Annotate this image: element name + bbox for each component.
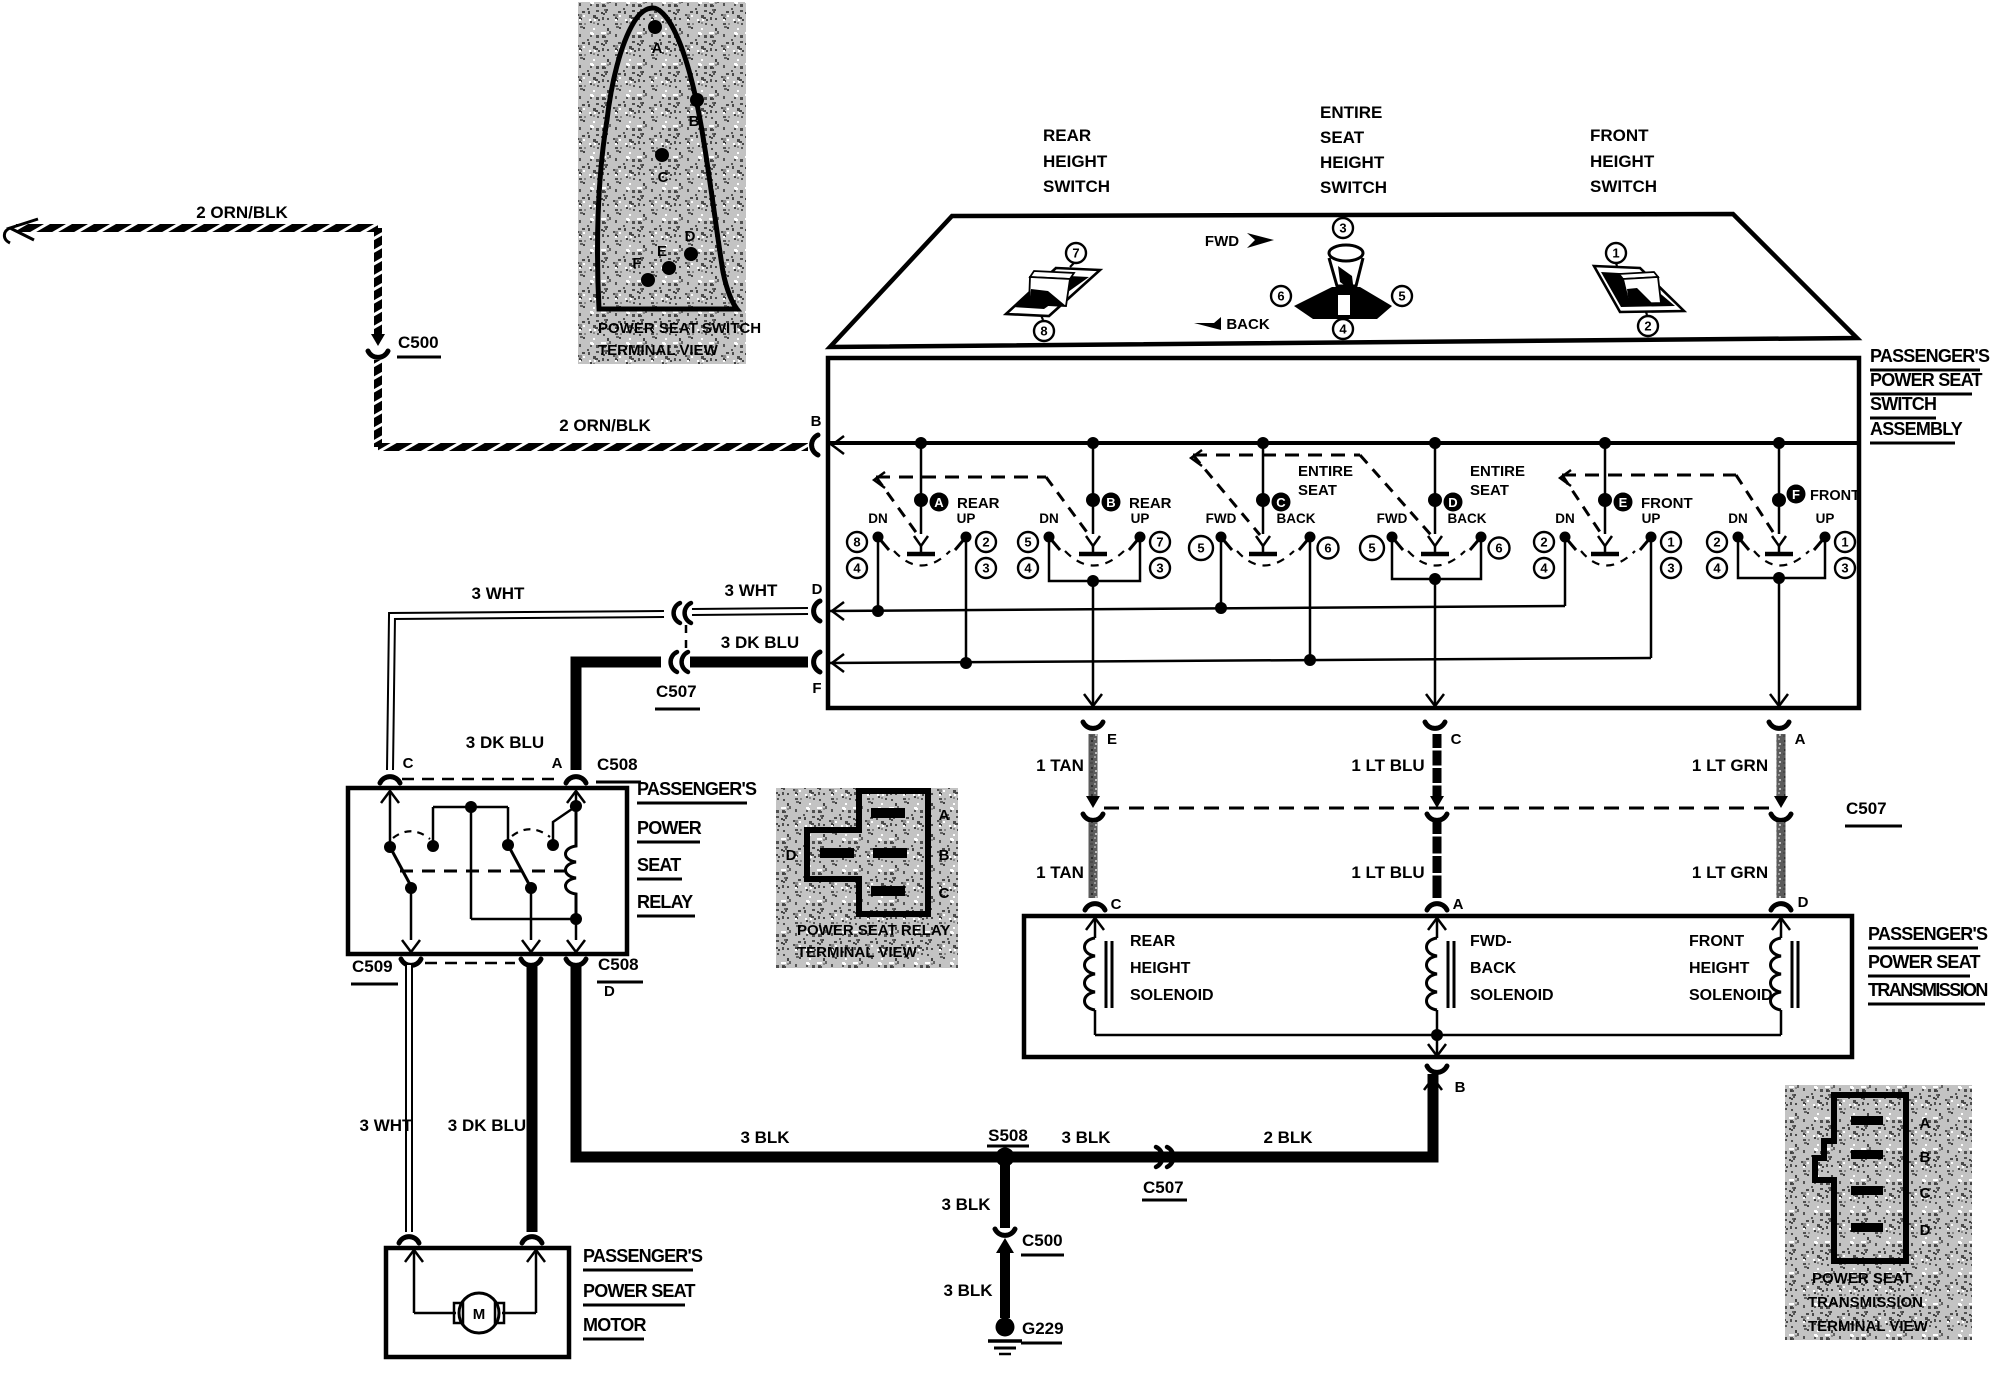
svg-text:SOLENOID: SOLENOID bbox=[1130, 987, 1214, 1004]
svg-text:MOTOR: MOTOR bbox=[583, 1315, 646, 1335]
svg-text:SOLENOID: SOLENOID bbox=[1689, 987, 1773, 1004]
svg-text:DN: DN bbox=[1728, 511, 1748, 526]
svg-text:TRANSMISSION: TRANSMISSION bbox=[1808, 1294, 1923, 1311]
svg-text:A: A bbox=[1920, 1115, 1931, 1132]
svg-text:C: C bbox=[658, 169, 669, 186]
wire switch B to terminal E (U-join) bbox=[1049, 542, 1140, 581]
svg-text:POWER SEAT SWITCH: POWER SEAT SWITCH bbox=[598, 320, 761, 337]
wire 3 BLK to ground bbox=[1000, 1250, 1010, 1318]
joystick BACK arrow bbox=[1194, 317, 1221, 330]
svg-text:REAR: REAR bbox=[957, 495, 1000, 512]
svg-text:3 WHT: 3 WHT bbox=[360, 1116, 414, 1135]
svg-text:C500: C500 bbox=[1022, 1231, 1063, 1250]
power seat transmission terminal view panel bbox=[1785, 1085, 1972, 1340]
svg-text:M: M bbox=[473, 1306, 486, 1323]
terminal F bracket bbox=[814, 652, 820, 672]
svg-text:C: C bbox=[1451, 731, 1462, 748]
switch D feed tap bbox=[1429, 437, 1441, 449]
svg-text:1 LT BLU: 1 LT BLU bbox=[1351, 756, 1424, 775]
passenger's power seat transmission box bbox=[1024, 916, 1852, 1057]
terminal D bracket (transmission) bbox=[1771, 904, 1791, 910]
switch C wiper travel arc bbox=[1237, 551, 1294, 566]
wire 1 LT BLU lower bbox=[1433, 822, 1442, 898]
joystick FWD arrow bbox=[1247, 233, 1274, 248]
connector C500 (top) bbox=[371, 334, 385, 346]
connector C508 brackets (bottom) bbox=[521, 959, 541, 965]
svg-text:3 DK BLU: 3 DK BLU bbox=[721, 633, 799, 652]
svg-text:SEAT: SEAT bbox=[1470, 482, 1509, 499]
switch F terminal numbers bbox=[1707, 532, 1727, 552]
wire 2 ORN/BLK below C500 bbox=[374, 360, 382, 447]
svg-text:DN: DN bbox=[868, 511, 888, 526]
switch F pivot bbox=[1772, 493, 1786, 507]
switch A right contact UP bbox=[961, 532, 972, 543]
svg-text:2 ORN/BLK: 2 ORN/BLK bbox=[559, 416, 651, 435]
svg-text:BACK: BACK bbox=[1277, 511, 1316, 526]
svg-text:SWITCH: SWITCH bbox=[1870, 394, 1936, 414]
svg-text:4: 4 bbox=[1713, 561, 1721, 576]
relay coil bbox=[566, 806, 577, 917]
relay right switch pole bbox=[507, 807, 510, 843]
switch A feed tap bbox=[915, 437, 927, 449]
switch E left contact DN bbox=[1560, 532, 1571, 543]
svg-text:D: D bbox=[786, 847, 797, 864]
svg-text:E: E bbox=[1619, 495, 1628, 510]
svg-text:A: A bbox=[552, 755, 563, 772]
motor bbox=[454, 1303, 463, 1323]
terminal F (switch view) bbox=[641, 273, 655, 287]
svg-text:3 BLK: 3 BLK bbox=[1061, 1128, 1111, 1147]
wire 3 WHT from C507 to relay bbox=[390, 614, 664, 770]
svg-text:C508: C508 bbox=[598, 955, 639, 974]
switch E wiper travel arc bbox=[1581, 551, 1635, 566]
svg-text:7: 7 bbox=[1156, 535, 1163, 550]
switch A pivot bbox=[914, 493, 928, 507]
svg-text:DN: DN bbox=[1555, 511, 1575, 526]
motor connector brackets bbox=[399, 1237, 419, 1243]
svg-text:F: F bbox=[632, 255, 641, 272]
switch E terminal numbers bbox=[1534, 532, 1554, 552]
svg-text:UP: UP bbox=[1642, 511, 1661, 526]
svg-text:1: 1 bbox=[1612, 246, 1619, 261]
wire 2 ORN/BLK from fuse (hatched) bbox=[16, 224, 378, 232]
svg-text:SEAT: SEAT bbox=[1298, 482, 1337, 499]
relay pole from C bbox=[381, 791, 399, 803]
switch F wiper travel arc bbox=[1754, 551, 1809, 566]
svg-text:3 DK BLU: 3 DK BLU bbox=[448, 1116, 526, 1135]
svg-text:D: D bbox=[604, 983, 615, 1000]
connector C507 inline (2 BLK) bbox=[1156, 1147, 1162, 1167]
switch E pivot bbox=[1598, 493, 1612, 507]
svg-text:HEIGHT: HEIGHT bbox=[1130, 960, 1191, 977]
wire 1 LT GRN upper bbox=[1777, 734, 1786, 798]
switch D pivot bbox=[1428, 493, 1442, 507]
joystick base bbox=[1294, 287, 1392, 319]
svg-text:A: A bbox=[1453, 896, 1464, 913]
svg-text:2: 2 bbox=[982, 535, 989, 550]
svg-text:PASSENGER'S: PASSENGER'S bbox=[583, 1246, 703, 1266]
circled 6 bbox=[1271, 286, 1291, 306]
svg-text:FRONT: FRONT bbox=[1689, 933, 1744, 950]
svg-text:SWITCH: SWITCH bbox=[1320, 178, 1387, 197]
svg-text:3 WHT: 3 WHT bbox=[725, 581, 779, 600]
svg-text:3: 3 bbox=[1841, 561, 1848, 576]
connector C507 on LT BLU wire bbox=[1430, 796, 1444, 808]
svg-text:BACK: BACK bbox=[1448, 511, 1487, 526]
connector C507 inline (3 DK BLU) bbox=[671, 652, 677, 672]
svg-text:BACK: BACK bbox=[1470, 960, 1517, 977]
switch C right contact BACK bbox=[1305, 532, 1316, 543]
switch D left contact FWD bbox=[1387, 532, 1398, 543]
svg-text:TERMINAL VIEW: TERMINAL VIEW bbox=[1808, 1318, 1929, 1335]
relay view terminal B bbox=[873, 848, 907, 858]
svg-text:1: 1 bbox=[1667, 535, 1674, 550]
relay right switch fixed contact bbox=[547, 839, 559, 851]
connector C507 dashed line bbox=[1104, 807, 1770, 810]
svg-text:B: B bbox=[811, 413, 822, 430]
svg-text:5: 5 bbox=[1197, 541, 1204, 556]
wire 1 TAN lower bbox=[1089, 822, 1098, 898]
wire switch C BACK to bus F bbox=[1309, 542, 1312, 660]
svg-text:SWITCH: SWITCH bbox=[1043, 177, 1110, 196]
svg-text:FWD-: FWD- bbox=[1470, 933, 1512, 950]
svg-text:A: A bbox=[934, 495, 944, 510]
terminal C bracket (assembly) bbox=[1425, 722, 1445, 728]
switch A terminal numbers bbox=[847, 532, 867, 552]
switch B left contact DN bbox=[1044, 532, 1055, 543]
svg-text:BACK: BACK bbox=[1226, 316, 1269, 333]
svg-text:5: 5 bbox=[1024, 535, 1031, 550]
svg-text:1 LT BLU: 1 LT BLU bbox=[1351, 863, 1424, 882]
svg-text:3: 3 bbox=[1339, 221, 1346, 236]
switch housing top face bbox=[830, 214, 1857, 347]
connector C507 on TAN wire bbox=[1086, 796, 1100, 808]
connector C509 bracket bbox=[401, 959, 421, 965]
wire switch F to terminal A (U-join) bbox=[1738, 542, 1825, 578]
circled 7 bbox=[1070, 263, 1074, 267]
svg-text:1 LT GRN: 1 LT GRN bbox=[1692, 756, 1768, 775]
svg-text:3 BLK: 3 BLK bbox=[941, 1195, 991, 1214]
connector C508 dashed line (top) bbox=[402, 778, 562, 781]
switch A left contact DN bbox=[873, 532, 884, 543]
svg-text:2: 2 bbox=[1644, 319, 1651, 334]
bus wire to terminal D bbox=[828, 606, 1565, 611]
switch A identifier bbox=[930, 493, 949, 512]
wire 3 DK BLU from F to C507 bbox=[690, 657, 808, 668]
power seat switch terminal view panel bbox=[578, 2, 746, 364]
switch C pivot bbox=[1256, 493, 1270, 507]
rear height solenoid bbox=[1086, 918, 1104, 930]
switch B identifier bbox=[1102, 493, 1121, 512]
mechanical linkage dashed bbox=[1193, 454, 1360, 457]
svg-text:5: 5 bbox=[1368, 541, 1375, 556]
svg-text:4: 4 bbox=[1540, 561, 1548, 576]
switch D identifier bbox=[1444, 493, 1463, 512]
svg-text:4: 4 bbox=[1339, 322, 1347, 337]
switch B feed tap bbox=[1087, 437, 1099, 449]
switch C left contact FWD bbox=[1216, 532, 1227, 543]
svg-text:FRONT: FRONT bbox=[1590, 126, 1649, 145]
switch B wiper travel arc bbox=[1065, 551, 1124, 566]
circled 2 bbox=[1646, 312, 1647, 315]
bus wire to terminal F bbox=[828, 658, 1651, 663]
svg-text:4: 4 bbox=[853, 561, 861, 576]
front height solenoid bbox=[1772, 918, 1790, 930]
relay output arrows bbox=[402, 940, 420, 952]
svg-text:SEAT: SEAT bbox=[1320, 128, 1365, 147]
svg-text:B: B bbox=[939, 847, 950, 864]
wire 2 BLK to transmission B bbox=[1424, 1078, 1442, 1090]
terminal D (switch view) bbox=[684, 247, 698, 261]
wire 1 LT GRN lower bbox=[1777, 822, 1786, 898]
rear height rocker switch bbox=[1006, 268, 1100, 316]
svg-text:8: 8 bbox=[853, 535, 860, 550]
relay right switch blade bbox=[508, 845, 530, 886]
svg-text:UP: UP bbox=[1131, 511, 1150, 526]
svg-text:A: A bbox=[939, 807, 950, 824]
svg-text:ASSEMBLY: ASSEMBLY bbox=[1870, 419, 1963, 439]
svg-text:A: A bbox=[652, 40, 663, 57]
svg-text:A: A bbox=[1795, 731, 1806, 748]
joystick knob bbox=[1329, 258, 1363, 286]
svg-text:PASSENGER'S: PASSENGER'S bbox=[1868, 924, 1988, 944]
svg-text:UP: UP bbox=[1816, 511, 1835, 526]
terminal A bracket (transmission) bbox=[1427, 904, 1447, 910]
front height rocker switch bbox=[1594, 266, 1684, 312]
switch B terminal numbers bbox=[1018, 532, 1038, 552]
svg-text:1 LT GRN: 1 LT GRN bbox=[1692, 863, 1768, 882]
svg-text:FWD: FWD bbox=[1377, 511, 1408, 526]
wire 1 LT BLU upper bbox=[1433, 734, 1442, 798]
switch E wiper bar bbox=[1591, 552, 1619, 557]
svg-text:E: E bbox=[657, 243, 667, 260]
svg-text:C: C bbox=[1111, 896, 1122, 913]
connector C507 on LT GRN wire bbox=[1774, 796, 1788, 808]
svg-text:S508: S508 bbox=[988, 1126, 1028, 1145]
svg-text:FWD: FWD bbox=[1205, 233, 1239, 250]
svg-text:HEIGHT: HEIGHT bbox=[1689, 960, 1750, 977]
mechanical linkage dashed bbox=[1562, 474, 1736, 477]
wire 3 BLK from S508 down bbox=[1000, 1157, 1010, 1228]
relay coil feed from A bbox=[567, 791, 585, 803]
svg-text:D: D bbox=[1920, 1222, 1931, 1239]
svg-text:B: B bbox=[1106, 495, 1115, 510]
wire switch C FWD to bus D bbox=[1220, 542, 1223, 608]
svg-text:ENTIRE: ENTIRE bbox=[1470, 463, 1525, 480]
svg-text:3: 3 bbox=[1667, 561, 1674, 576]
terminal A (switch view) bbox=[648, 20, 662, 34]
circled 1 bbox=[1616, 263, 1617, 266]
svg-text:G229: G229 bbox=[1022, 1319, 1064, 1338]
wire switch D to terminal C (U-join) bbox=[1392, 542, 1481, 579]
svg-text:C: C bbox=[1276, 495, 1286, 510]
svg-text:2 ORN/BLK: 2 ORN/BLK bbox=[196, 203, 288, 222]
svg-text:E: E bbox=[1107, 731, 1117, 748]
svg-text:FRONT: FRONT bbox=[1641, 495, 1693, 512]
svg-text:B: B bbox=[1920, 1149, 1931, 1166]
svg-text:F: F bbox=[1792, 487, 1800, 502]
ground G229 bbox=[996, 1318, 1015, 1337]
terminal B arrow (inside) bbox=[832, 436, 844, 454]
fwd-back solenoid bbox=[1428, 918, 1446, 930]
switch E identifier bbox=[1614, 493, 1633, 512]
svg-text:7: 7 bbox=[1072, 246, 1079, 261]
svg-text:REAR: REAR bbox=[1129, 495, 1172, 512]
svg-text:B: B bbox=[689, 113, 700, 130]
svg-text:FRONT: FRONT bbox=[1810, 488, 1860, 504]
wire to terminal B (transmission) bbox=[1436, 1035, 1439, 1055]
switch B right contact UP bbox=[1135, 532, 1146, 543]
svg-text:HEIGHT: HEIGHT bbox=[1590, 152, 1655, 171]
relay view terminal D bbox=[820, 848, 854, 858]
svg-text:ENTIRE: ENTIRE bbox=[1320, 103, 1382, 122]
switch C wiper bar bbox=[1249, 552, 1277, 557]
switch F right contact UP bbox=[1820, 532, 1831, 543]
svg-text:FWD: FWD bbox=[1206, 511, 1237, 526]
svg-text:3 WHT: 3 WHT bbox=[472, 584, 526, 603]
wire 3 WHT relay to motor bbox=[405, 965, 413, 1232]
svg-text:REAR: REAR bbox=[1043, 126, 1091, 145]
svg-text:POWER SEAT RELAY: POWER SEAT RELAY bbox=[797, 922, 950, 939]
wire 3 WHT from D to C507 bbox=[692, 611, 808, 612]
switch B wiper bar bbox=[1079, 552, 1107, 557]
svg-text:REAR: REAR bbox=[1130, 933, 1176, 950]
connector C507 inline (3 WHT) bbox=[674, 603, 680, 623]
svg-text:TERMINAL VIEW: TERMINAL VIEW bbox=[797, 944, 918, 961]
svg-text:D: D bbox=[685, 228, 696, 245]
passenger's power seat relay box bbox=[348, 788, 627, 954]
circled 8 bbox=[1041, 315, 1043, 320]
circled 3 bbox=[1333, 218, 1353, 238]
svg-text:2: 2 bbox=[1540, 535, 1547, 550]
switch D right contact BACK bbox=[1476, 532, 1487, 543]
svg-text:SEAT: SEAT bbox=[637, 855, 681, 875]
svg-text:TERMINAL VIEW: TERMINAL VIEW bbox=[598, 342, 719, 359]
circled 4 bbox=[1333, 319, 1353, 339]
switch A wiper travel arc bbox=[894, 551, 950, 566]
switch E right contact UP bbox=[1646, 532, 1657, 543]
wire switch A UP to bus F bbox=[965, 542, 968, 663]
relay linkage dashed bbox=[400, 870, 568, 873]
splice S508 bbox=[996, 1148, 1015, 1167]
svg-text:SOLENOID: SOLENOID bbox=[1470, 987, 1554, 1004]
feed bus wire bbox=[828, 441, 1859, 445]
wire 3 BLK relay to S508 splice bbox=[576, 965, 1433, 1157]
svg-text:1 TAN: 1 TAN bbox=[1036, 756, 1084, 775]
svg-text:D: D bbox=[812, 581, 823, 598]
wire 2 ORN/BLK to switch assembly B bbox=[378, 443, 808, 451]
svg-text:6: 6 bbox=[1324, 541, 1331, 556]
switch D wiper bar bbox=[1421, 552, 1449, 557]
switch F feed tap bbox=[1773, 437, 1785, 449]
svg-text:C: C bbox=[939, 885, 950, 902]
terminal E (switch view) bbox=[662, 261, 676, 275]
wire switch A DN to bus D bbox=[877, 542, 880, 610]
motor wiring bbox=[405, 1250, 423, 1262]
svg-text:POWER SEAT: POWER SEAT bbox=[1870, 370, 1982, 390]
svg-text:HEIGHT: HEIGHT bbox=[1043, 152, 1108, 171]
svg-text:3 BLK: 3 BLK bbox=[943, 1281, 993, 1300]
svg-text:D: D bbox=[1448, 495, 1457, 510]
passenger's power seat motor box bbox=[386, 1248, 569, 1357]
wire 3 DK BLU from C507 to relay bbox=[576, 662, 661, 770]
wire switch E UP to bus F end bbox=[1650, 542, 1653, 658]
terminal A bracket (assembly) bbox=[1769, 722, 1789, 728]
svg-text:C: C bbox=[1920, 1185, 1931, 1202]
terminal C bracket (transmission) bbox=[1085, 904, 1105, 910]
svg-text:1: 1 bbox=[1841, 535, 1848, 550]
relay terminal C bracket bbox=[380, 777, 400, 783]
relay view terminal C bbox=[871, 886, 905, 896]
relay terminal A bracket bbox=[566, 777, 586, 783]
relay left switch blade bbox=[390, 847, 411, 886]
wire end hook arrow bbox=[4, 219, 38, 243]
switch F wiper bar bbox=[1765, 552, 1793, 557]
connector dashed line (bottom) bbox=[425, 962, 515, 965]
svg-text:2 BLK: 2 BLK bbox=[1263, 1128, 1313, 1147]
transmission view terminal B bbox=[1851, 1150, 1883, 1159]
svg-text:3 DK BLU: 3 DK BLU bbox=[466, 733, 544, 752]
svg-text:HEIGHT: HEIGHT bbox=[1320, 153, 1385, 172]
svg-text:C508: C508 bbox=[597, 755, 638, 774]
solenoid common wire bbox=[1095, 1034, 1781, 1037]
wire 3 DK BLU relay to motor bbox=[527, 965, 538, 1232]
svg-text:C507: C507 bbox=[1143, 1178, 1184, 1197]
svg-text:PASSENGER'S: PASSENGER'S bbox=[637, 779, 757, 799]
connector C507 dashed link bbox=[685, 625, 688, 652]
svg-text:C507: C507 bbox=[656, 682, 697, 701]
passenger's power seat switch assembly box bbox=[828, 358, 1859, 708]
svg-text:3: 3 bbox=[1156, 561, 1163, 576]
svg-text:C500: C500 bbox=[398, 333, 439, 352]
svg-text:1 TAN: 1 TAN bbox=[1036, 863, 1084, 882]
connector C500 (bottom) bbox=[995, 1229, 1015, 1235]
svg-text:POWER: POWER bbox=[637, 818, 702, 838]
switch C terminal numbers bbox=[1189, 536, 1213, 560]
svg-text:F: F bbox=[812, 680, 821, 697]
svg-text:SWITCH: SWITCH bbox=[1590, 177, 1657, 196]
switch F left contact DN bbox=[1733, 532, 1744, 543]
wire 1 TAN upper bbox=[1089, 734, 1098, 798]
svg-text:D: D bbox=[1798, 894, 1809, 911]
svg-text:3: 3 bbox=[982, 561, 989, 576]
svg-text:PASSENGER'S: PASSENGER'S bbox=[1870, 346, 1990, 366]
svg-text:POWER SEAT: POWER SEAT bbox=[1812, 1270, 1912, 1287]
switch A wiper bar bbox=[907, 552, 935, 557]
svg-text:3 BLK: 3 BLK bbox=[740, 1128, 790, 1147]
relay view terminal A bbox=[871, 808, 905, 818]
relay contact bridge wire bbox=[433, 806, 508, 809]
switch C feed tap bbox=[1257, 437, 1269, 449]
terminal D bracket bbox=[814, 601, 820, 621]
svg-text:POWER SEAT: POWER SEAT bbox=[1868, 952, 1980, 972]
svg-text:C509: C509 bbox=[352, 957, 393, 976]
svg-text:TRANSMISSION: TRANSMISSION bbox=[1868, 980, 1987, 1000]
relay left switch fixed contact bbox=[427, 840, 439, 852]
switch E feed tap bbox=[1599, 437, 1611, 449]
switch F identifier bbox=[1787, 485, 1806, 504]
terminal C (switch view) bbox=[655, 148, 669, 162]
svg-text:4: 4 bbox=[1024, 561, 1032, 576]
svg-text:POWER SEAT: POWER SEAT bbox=[583, 1281, 695, 1301]
transmission view terminal A bbox=[1851, 1116, 1883, 1125]
switch D wiper travel arc bbox=[1408, 551, 1465, 566]
power seat relay terminal view panel bbox=[776, 788, 958, 968]
svg-text:C507: C507 bbox=[1846, 799, 1887, 818]
mechanical linkage dashed bbox=[876, 476, 1046, 479]
transmission view terminal C bbox=[1851, 1186, 1883, 1195]
svg-text:6: 6 bbox=[1495, 541, 1502, 556]
